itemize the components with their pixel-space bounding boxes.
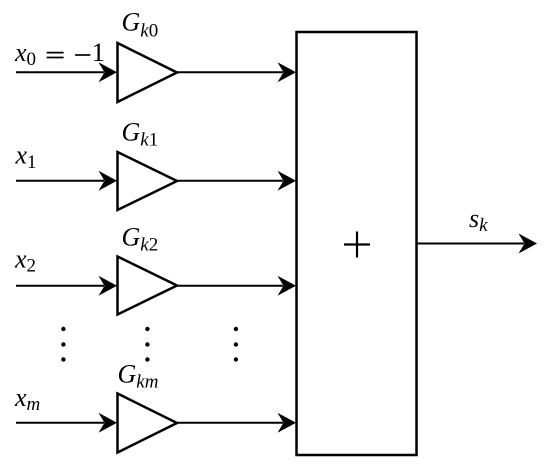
summation box xyxy=(297,32,417,455)
svg-text:1: 1 xyxy=(92,38,106,67)
plus sign vertical stroke xyxy=(356,232,358,258)
wire Gk0 output to summer xyxy=(177,71,283,73)
arrowhead x0 into amplifier xyxy=(99,62,118,82)
arrowhead output xyxy=(519,234,538,254)
arrowhead x2 into amplifier xyxy=(99,276,118,296)
wire x1 input xyxy=(16,180,104,182)
amplifier Gk2 xyxy=(118,257,178,315)
arrowhead x1 into amplifier xyxy=(99,171,118,191)
amplifier Gk1 xyxy=(118,152,178,210)
wire x2 input xyxy=(16,285,104,287)
wire xm input xyxy=(16,422,104,424)
amplifier Gk0 xyxy=(118,43,178,102)
arrowhead into summer row4 xyxy=(278,413,297,433)
ellipsis column amplifiers xyxy=(145,327,149,362)
wire Gk1 output to summer xyxy=(177,180,283,182)
arrowhead into summer row3 xyxy=(278,276,297,296)
arrowhead into summer row1 xyxy=(278,62,297,82)
arrowhead xm into amplifier xyxy=(99,413,118,433)
wire x0 input xyxy=(16,71,104,73)
plus sign horizontal stroke xyxy=(344,243,370,245)
arrowhead into summer row2 xyxy=(278,171,297,191)
wire Gk2 output to summer xyxy=(177,285,283,287)
ellipsis column inputs xyxy=(61,327,65,362)
ellipsis column summer inputs xyxy=(234,327,238,362)
wire Gkm output to summer xyxy=(177,422,283,424)
wire output sk xyxy=(417,243,524,245)
amplifier Gkm xyxy=(118,394,178,453)
